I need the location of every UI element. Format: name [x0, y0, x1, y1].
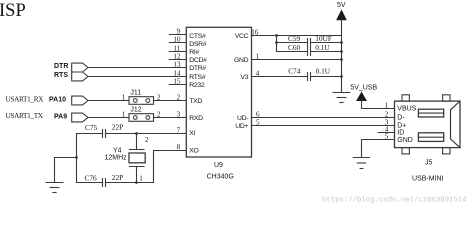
svg-text:RTS: RTS [54, 72, 68, 79]
svg-text:TXD: TXD [189, 98, 202, 105]
svg-text:ISP: ISP [0, 1, 26, 21]
pin 4 V3 label [240, 69, 259, 81]
connector RTS flag [54, 72, 88, 81]
svg-text:Y4: Y4 [113, 148, 122, 155]
svg-text:D+: D+ [397, 122, 406, 129]
svg-text:J11: J11 [130, 89, 141, 96]
connector DTR flag [54, 63, 88, 72]
pin 7 XI [177, 126, 196, 137]
jumper J12 [122, 106, 161, 121]
wire PA9 to J12 pin1 [88, 117, 129, 119]
svg-text:5V: 5V [337, 2, 346, 9]
pin 1 GND label [234, 52, 260, 64]
svg-text:1: 1 [122, 94, 126, 102]
svg-text:RXD: RXD [189, 115, 203, 122]
svg-text:8: 8 [177, 143, 181, 151]
svg-text:J12: J12 [130, 106, 141, 113]
pin 5 UD+ label [235, 118, 260, 130]
svg-text:DTR: DTR [54, 63, 68, 70]
node junction rail C60 [340, 50, 343, 53]
svg-text:12MHz: 12MHz [105, 155, 128, 162]
wire XI row left rail to C75 [77, 133, 103, 135]
ground symbol rail [333, 93, 350, 103]
svg-text:VCC: VCC [235, 33, 249, 40]
svg-text:5: 5 [385, 132, 389, 140]
svg-text:USART1_RX: USART1_RX [6, 95, 45, 103]
ground symbol left [46, 183, 63, 193]
svg-text:XI: XI [189, 130, 195, 137]
svg-text:ID: ID [397, 130, 404, 137]
capacitor C59 10UF [288, 34, 332, 47]
wire XO branch up and to chip pin8 [154, 151, 187, 183]
wire RTS to pin14 [88, 76, 186, 78]
svg-text:10: 10 [173, 35, 181, 43]
svg-text:USB-MINI: USB-MINI [412, 176, 444, 183]
node junction rail GND [340, 58, 343, 61]
pin 2 TXD [177, 93, 203, 105]
pin 6 UD- label [237, 110, 260, 122]
wire GND pin1 to rail [252, 59, 342, 61]
svg-text:RI#: RI# [189, 49, 199, 56]
wire PA10 to J11 pin1 [88, 100, 129, 102]
port PA9 flag [54, 113, 88, 122]
svg-text:V3: V3 [240, 74, 248, 81]
svg-text:15: 15 [173, 77, 181, 85]
svg-text:1: 1 [139, 174, 143, 182]
node junction VCC cap branch [275, 34, 278, 37]
svg-text:C59: C59 [288, 34, 301, 43]
left rail wire [76, 134, 78, 183]
svg-text:DTR#: DTR# [189, 65, 206, 72]
svg-text:PA9: PA9 [54, 114, 67, 121]
pin 15 R232 stub [169, 77, 204, 89]
ID stub wire [378, 132, 395, 134]
USB pin 1 VBUS [385, 101, 417, 112]
pin 12 DCD# stub [169, 52, 207, 64]
svg-text:1: 1 [122, 111, 126, 119]
USB pin 5 GND [385, 132, 413, 144]
power 5V_USB symbol [350, 85, 394, 109]
wire V3 pin4 to C74 [252, 76, 308, 78]
node junction C59 row [275, 41, 278, 44]
pin 9 CTS# stub [169, 27, 206, 40]
svg-text:UD-: UD- [237, 115, 248, 122]
svg-text:C60: C60 [288, 43, 301, 52]
wire C74 right to rail [311, 76, 342, 78]
svg-text:22P: 22P [112, 122, 123, 131]
pin 16 VCC label [235, 28, 259, 40]
wire C60 row right to rail [311, 51, 342, 53]
crystal Y4 12MHz [105, 134, 149, 183]
capacitor C76 22P [85, 173, 124, 186]
svg-text:9: 9 [177, 27, 181, 35]
wire C76 row left [77, 182, 103, 184]
pin 3 RXD [177, 110, 204, 122]
USB pin 2 D- [385, 110, 406, 121]
USB shield contact bottom hatched [418, 133, 443, 142]
wire C59 row left [277, 42, 308, 44]
svg-text:5V_USB: 5V_USB [350, 85, 377, 92]
svg-text:https://blog.csdn.net/c1063891: https://blog.csdn.net/c1063891514 [322, 197, 467, 205]
svg-text:UD+: UD+ [235, 123, 248, 130]
svg-text:DCD#: DCD# [189, 57, 207, 64]
node junction rail C74 [340, 75, 343, 78]
svg-text:R232: R232 [189, 82, 205, 89]
svg-text:C75: C75 [85, 123, 98, 132]
wire UD+ pin5 to USB D+ [252, 125, 395, 127]
svg-text:DSR#: DSR# [189, 41, 206, 48]
node junction rail C59 [340, 41, 343, 44]
svg-text:0.1U: 0.1U [315, 43, 330, 52]
IC U9 chip body CH340G [186, 27, 251, 157]
svg-text:2: 2 [385, 110, 389, 118]
wire C75 to pin7 XI [106, 133, 187, 135]
svg-text:2: 2 [145, 136, 149, 144]
svg-text:GND: GND [234, 57, 249, 64]
wire C76 to XO branch [106, 182, 154, 184]
capacitor C75 22P [85, 122, 123, 137]
pin 14 RTS# [173, 69, 205, 81]
wire 5V rail vertical [341, 36, 343, 93]
pin 8 XO [177, 143, 199, 155]
pin 11 RI# stub [169, 44, 199, 56]
svg-text:PA10: PA10 [49, 97, 66, 104]
svg-text:1: 1 [385, 101, 389, 109]
wire VCC pin16 to 5V rail [252, 35, 342, 37]
pin 13 DTR# [173, 60, 206, 72]
USB pin 3 D+ [385, 118, 407, 129]
wire cap branch vertical [276, 36, 278, 52]
ground symbol USB [353, 158, 369, 169]
wire C60 row left [277, 51, 308, 53]
connector J5 USB-MINI body [395, 95, 461, 154]
svg-text:22P: 22P [112, 173, 123, 182]
node junction crystal bottom on C76 row [135, 181, 138, 184]
svg-text:CH340G: CH340G [207, 174, 234, 181]
svg-text:XO: XO [189, 147, 198, 154]
svg-text:RTS#: RTS# [189, 74, 206, 81]
wire C59 row right to rail [311, 42, 342, 44]
node junction ground tap on rail [75, 156, 78, 159]
port PA10 flag [49, 96, 88, 105]
svg-text:GND: GND [397, 137, 413, 144]
svg-text:11: 11 [173, 44, 180, 52]
svg-text:USART1_TX: USART1_TX [6, 112, 44, 120]
wire USB GND to ground [362, 140, 395, 158]
svg-text:10UF: 10UF [315, 34, 332, 43]
svg-text:12: 12 [173, 52, 181, 60]
svg-text:J5: J5 [425, 159, 433, 166]
capacitor C74 0.1U [288, 66, 331, 80]
svg-text:CTS#: CTS# [189, 33, 206, 40]
svg-text:C74: C74 [288, 66, 301, 75]
wire J11 pin2 to chip pin2 TXD [154, 100, 187, 102]
svg-text:0.1U: 0.1U [316, 66, 331, 75]
svg-text:C76: C76 [85, 173, 98, 182]
power 5V symbol [337, 2, 346, 36]
wire DTR to pin13 [88, 67, 186, 69]
pin 10 DSR# stub [169, 35, 206, 48]
node junction crystal top on XI row [135, 132, 138, 135]
capacitor C60 0.1U [288, 43, 330, 55]
jumper J11 [122, 89, 161, 104]
ground tap wire from left rail [55, 158, 77, 183]
USB shield contact top hatched [418, 109, 443, 117]
svg-text:D-: D- [397, 114, 405, 121]
USB pin 4 ID [385, 125, 405, 136]
svg-text:U9: U9 [214, 162, 223, 169]
wire J12 pin2 to chip pin3 RXD [154, 117, 187, 119]
svg-text:VBUS: VBUS [397, 105, 416, 112]
wire UD- pin6 to USB D- [252, 117, 395, 119]
